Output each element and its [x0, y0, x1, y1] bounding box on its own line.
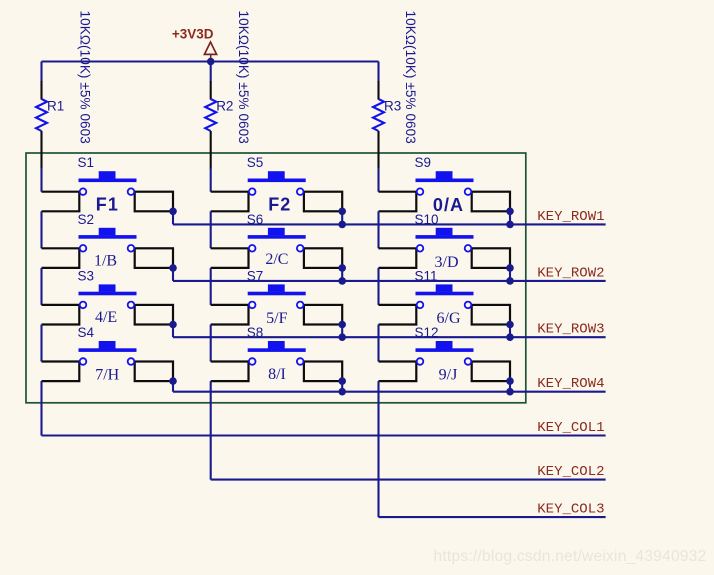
- svg-text:KEY_COL1: KEY_COL1: [537, 420, 604, 436]
- wire column segment below S1: [40, 211, 42, 248]
- svg-text:https://blog.csdn.net/weixin_4: https://blog.csdn.net/weixin_43940932: [434, 548, 707, 565]
- svg-text:R2: R2: [216, 99, 233, 114]
- resistor R1: [36, 81, 47, 169]
- junction S9 drop / row wire: [506, 221, 514, 229]
- junction S7 drop / row wire: [338, 333, 346, 341]
- wire KEY_COL1: [42, 434, 606, 436]
- resistor R2: [205, 81, 216, 169]
- svg-text:KEY_ROW1: KEY_ROW1: [537, 209, 604, 225]
- svg-text:S4: S4: [78, 325, 95, 340]
- wire column segment below S10: [377, 268, 379, 305]
- wire S3 to row line: [172, 325, 174, 338]
- wire rail to R1: [40, 62, 42, 82]
- switch S4 (7/H): [42, 341, 174, 381]
- junction +3V3D rail / R2: [207, 58, 215, 66]
- wire S5 to row line: [341, 211, 343, 224]
- switch S2 (1/B): [42, 228, 174, 268]
- svg-text:KEY_COL2: KEY_COL2: [537, 464, 604, 480]
- svg-text:S9: S9: [415, 155, 432, 170]
- svg-text:S1: S1: [78, 155, 95, 170]
- wire column segment below S2: [40, 268, 42, 305]
- power +3V3D: [172, 27, 217, 60]
- svg-text:10KΩ(10K) ±5% 0603: 10KΩ(10K) ±5% 0603: [403, 11, 418, 144]
- svg-text:8/I: 8/I: [268, 366, 286, 383]
- wire S7 to row line: [341, 325, 343, 338]
- wire S1 to row line: [172, 211, 174, 224]
- wire S4 to row line: [172, 381, 174, 392]
- wire S6 to row line: [341, 268, 343, 281]
- junction S3 pin4: [169, 321, 177, 329]
- svg-text:10KΩ(10K) ±5% 0603: 10KΩ(10K) ±5% 0603: [77, 11, 92, 144]
- wire S2 to row line: [172, 268, 174, 281]
- wire column segment below S4: [40, 381, 42, 435]
- wire column segment below S5: [210, 211, 212, 248]
- svg-text:2/C: 2/C: [265, 251, 288, 268]
- wire KEY_ROW4: [173, 391, 606, 393]
- junction S6 pin4: [338, 264, 346, 272]
- junction S4 pin4: [169, 377, 177, 385]
- switch S6 (2/C): [211, 228, 342, 268]
- switch S10 (3/D): [379, 228, 511, 268]
- wire R2 to column: [210, 168, 212, 192]
- switch S8 (8/I): [211, 341, 342, 381]
- wire column segment below S8: [210, 381, 212, 480]
- svg-text:F1: F1: [96, 195, 119, 215]
- svg-text:10KΩ(10K) ±5% 0603: 10KΩ(10K) ±5% 0603: [236, 11, 251, 144]
- junction S10 pin4: [506, 264, 514, 272]
- svg-text:KEY_ROW4: KEY_ROW4: [537, 376, 604, 392]
- svg-text:3/D: 3/D: [435, 254, 459, 271]
- svg-text:6/G: 6/G: [437, 310, 461, 327]
- wire S8 to row line: [341, 381, 343, 392]
- switch S12 (9/J): [379, 341, 511, 381]
- junction S8 pin4: [338, 377, 346, 385]
- svg-text:S3: S3: [78, 268, 95, 283]
- wire R3 to column: [377, 168, 379, 192]
- svg-text:1/B: 1/B: [94, 253, 117, 270]
- wire KEY_COL2: [211, 479, 606, 481]
- switch S3 (4/E): [42, 284, 174, 324]
- wire column segment below S6: [210, 268, 212, 305]
- wire S10 to row line: [509, 268, 511, 281]
- wire rail to R3: [377, 62, 379, 82]
- junction S6 drop / row wire: [338, 277, 346, 285]
- wire KEY_ROW1: [173, 223, 606, 225]
- junction S7 pin4: [338, 321, 346, 329]
- junction S11 pin4: [506, 321, 514, 329]
- svg-text:9/J: 9/J: [439, 366, 458, 383]
- wire +3V3D rail: [42, 60, 379, 62]
- wire column segment below S3: [40, 325, 42, 362]
- junction S1 pin4: [169, 208, 177, 216]
- wire column segment below S11: [377, 325, 379, 362]
- svg-text:F2: F2: [268, 194, 291, 214]
- junction S5 pin4: [338, 208, 346, 216]
- switch S1 (F1): [42, 171, 174, 211]
- wire S9 to row line: [509, 211, 511, 224]
- svg-text:KEY_COL3: KEY_COL3: [537, 502, 604, 518]
- junction S9 pin4: [506, 208, 514, 216]
- switch S11 (6/G): [379, 284, 511, 324]
- svg-text:KEY_ROW3: KEY_ROW3: [537, 322, 604, 338]
- svg-text:5/F: 5/F: [266, 310, 287, 327]
- switch S7 (5/F): [211, 284, 342, 324]
- resistor R3: [373, 81, 384, 169]
- wire KEY_ROW3: [173, 336, 606, 338]
- junction S2 pin4: [169, 264, 177, 272]
- wire column segment below S12: [377, 381, 379, 517]
- junction S5 drop / row wire: [338, 221, 346, 229]
- svg-text:R3: R3: [384, 99, 401, 114]
- wire column segment below S9: [377, 211, 379, 248]
- switch S9 (0/A): [379, 171, 511, 211]
- switch S5 (F2): [211, 171, 342, 211]
- svg-text:R1: R1: [47, 99, 64, 114]
- junction S12 drop / row wire: [506, 388, 514, 396]
- keypad group box: [26, 153, 526, 403]
- svg-text:4/E: 4/E: [95, 309, 117, 326]
- svg-text:7/H: 7/H: [95, 367, 119, 384]
- svg-text:KEY_ROW2: KEY_ROW2: [537, 265, 604, 281]
- wire rail to R2: [210, 62, 212, 82]
- junction S8 drop / row wire: [338, 388, 346, 396]
- junction S11 drop / row wire: [506, 333, 514, 341]
- junction S10 drop / row wire: [506, 277, 514, 285]
- wire KEY_COL3: [379, 516, 606, 518]
- svg-text:S5: S5: [247, 155, 264, 170]
- wire R1 to column: [40, 168, 42, 192]
- wire S11 to row line: [509, 325, 511, 338]
- wire KEY_ROW2: [173, 280, 606, 282]
- junction S12 pin4: [506, 377, 514, 385]
- svg-text:+3V3D: +3V3D: [172, 27, 214, 42]
- svg-text:S2: S2: [78, 212, 95, 227]
- wire S12 to row line: [509, 381, 511, 392]
- wire column segment below S7: [210, 325, 212, 362]
